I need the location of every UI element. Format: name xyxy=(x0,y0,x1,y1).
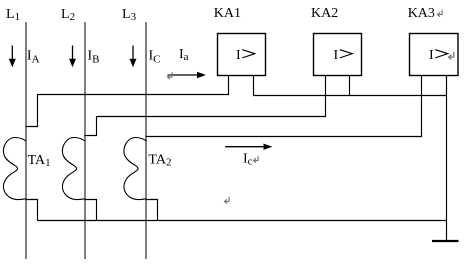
line L3 (phase line) xyxy=(145,22,147,259)
common return wire xyxy=(38,220,447,222)
transformer TA1 winding xyxy=(3,138,26,200)
ground xyxy=(432,240,459,242)
relay KA2 symbol I> xyxy=(334,48,353,63)
wire: TA2(mid) top terminal to KA2 left pin xyxy=(85,75,326,136)
svg-text:KA3: KA3 xyxy=(408,6,435,21)
TA1 bottom terminal to common wire xyxy=(26,200,38,221)
relay KA1 symbol I> xyxy=(236,48,255,63)
paragraph mark after Ic xyxy=(254,156,259,163)
wire: KA1 pin 2 to KA3 right pin xyxy=(254,75,447,96)
transformer TA2 winding xyxy=(124,138,147,200)
relay KA1 box xyxy=(218,34,266,76)
line L2 (phase line) xyxy=(84,22,86,259)
current arrow IA (down) xyxy=(9,46,16,68)
current arrow IC (down) xyxy=(130,46,137,68)
paragraph mark at Ia arrow xyxy=(168,72,173,79)
paragraph mark in KA3 box xyxy=(449,52,454,60)
TA2 bottom terminal to common wire xyxy=(146,200,158,221)
svg-text:I: I xyxy=(236,48,241,63)
current arrow Ia (right) xyxy=(168,72,207,78)
svg-text:I: I xyxy=(429,48,434,63)
transformer TA(mid) winding xyxy=(62,138,85,200)
svg-text:KA2: KA2 xyxy=(311,6,338,21)
svg-text:KA1: KA1 xyxy=(214,6,241,21)
wire: TA1 top terminal to KA1 pin 1 xyxy=(26,75,229,127)
wire: KA3 right pin down to ground xyxy=(446,75,448,241)
relay KA3 box xyxy=(410,34,459,76)
paragraph mark (middle) xyxy=(225,197,230,204)
line L1 (phase line) xyxy=(25,22,27,259)
paragraph mark after KA3 xyxy=(438,10,443,17)
current arrow Ic (right) xyxy=(225,144,272,150)
relay KA3 symbol I> xyxy=(429,48,448,63)
TA(mid) bottom terminal to common wire xyxy=(85,200,97,221)
current arrow IB (down) xyxy=(69,46,76,68)
relay KA2 box xyxy=(314,34,362,76)
wire: TA3 top terminal to KA3 left pin xyxy=(146,75,422,137)
wire: KA2 right pin xyxy=(349,75,351,96)
svg-text:I: I xyxy=(334,48,339,63)
